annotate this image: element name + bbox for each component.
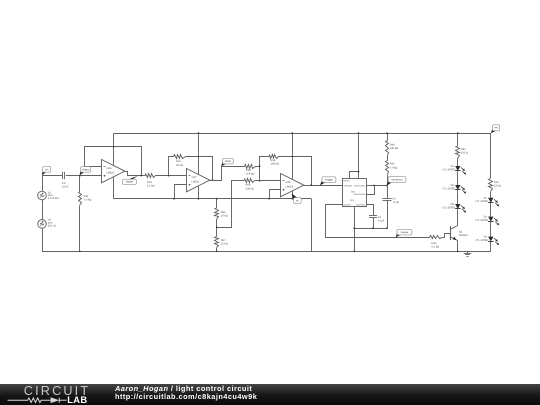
svg-text:R67: R67 xyxy=(221,239,226,242)
svg-text:10 kΩ: 10 kΩ xyxy=(221,243,228,246)
svg-text:LTL-307EE: LTL-307EE xyxy=(476,239,489,242)
svg-text:R42: R42 xyxy=(461,148,466,151)
svg-text:R12: R12 xyxy=(176,160,181,163)
svg-text:10 µF: 10 µF xyxy=(393,201,400,204)
svg-text:THRESHOLD: THRESHOLD xyxy=(354,193,366,196)
svg-text:150 Ω: 150 Ω xyxy=(494,185,501,188)
svg-text:10 kΩ: 10 kΩ xyxy=(176,164,183,167)
svg-text:0V: 0V xyxy=(296,199,299,202)
svg-text:OA8: OA8 xyxy=(286,181,292,184)
svg-text:LTL-307EE: LTL-307EE xyxy=(476,219,489,222)
svg-text:Vin: Vin xyxy=(45,168,49,171)
svg-text:150 Ω: 150 Ω xyxy=(461,152,468,155)
svg-text:LAB: LAB xyxy=(67,395,87,405)
svg-text:Vthreshold: Vthreshold xyxy=(392,178,404,181)
svg-text:DISCHARGE: DISCHARGE xyxy=(354,185,366,188)
svg-text:100 kΩ: 100 kΩ xyxy=(246,187,254,190)
svg-text:R68: R68 xyxy=(246,184,251,187)
svg-text:R40: R40 xyxy=(432,242,437,245)
svg-text:LTL-307EE: LTL-307EE xyxy=(443,206,456,209)
svg-text:2.673 kHz: 2.673 kHz xyxy=(48,197,60,200)
svg-text:10 nF: 10 nF xyxy=(62,185,69,188)
svg-text:281 Hz: 281 Hz xyxy=(48,224,57,227)
svg-text:5.6 kΩ: 5.6 kΩ xyxy=(84,199,92,202)
svg-text:1.1 kΩ: 1.1 kΩ xyxy=(147,185,155,188)
svg-text:2N3904: 2N3904 xyxy=(459,234,468,237)
svg-text:100 kΩ: 100 kΩ xyxy=(271,163,279,166)
svg-text:R38: R38 xyxy=(246,169,251,172)
svg-text:R13: R13 xyxy=(147,181,152,184)
svg-text:10 µF: 10 µF xyxy=(378,219,385,222)
svg-text:R58: R58 xyxy=(271,159,276,162)
svg-text:330 kΩ: 330 kΩ xyxy=(390,147,398,150)
svg-text:Vtrigger: Vtrigger xyxy=(325,179,333,182)
svg-text:VinBias: VinBias xyxy=(82,168,91,171)
svg-text:LM324: LM324 xyxy=(192,181,200,184)
svg-text:Vamp: Vamp xyxy=(225,160,232,163)
svg-text:R41: R41 xyxy=(494,181,499,184)
svg-text:LTL-307EE: LTL-307EE xyxy=(443,168,456,171)
svg-text:10 kΩ: 10 kΩ xyxy=(221,215,228,218)
svg-text:OA6: OA6 xyxy=(107,167,113,170)
svg-text:VBuffer: VBuffer xyxy=(126,181,134,184)
svg-text:LTL-307EE: LTL-307EE xyxy=(476,200,489,203)
svg-text:R45: R45 xyxy=(390,163,395,166)
svg-text:6.2 kΩ: 6.2 kΩ xyxy=(432,246,440,249)
svg-text:TRIGGER: TRIGGER xyxy=(343,184,352,187)
svg-text:+9V: +9V xyxy=(494,127,499,130)
svg-text:LTL-307EE: LTL-307EE xyxy=(443,187,456,190)
svg-text:Voutput: Voutput xyxy=(401,231,409,234)
svg-text:LM324: LM324 xyxy=(286,186,294,189)
svg-text:LM324: LM324 xyxy=(107,172,115,175)
svg-text:R44: R44 xyxy=(390,143,395,146)
svg-text:5.6 kΩ: 5.6 kΩ xyxy=(390,166,398,169)
svg-text:100 kΩ: 100 kΩ xyxy=(246,173,254,176)
svg-text:CONTROL: CONTROL xyxy=(356,204,365,207)
svg-text:OA7: OA7 xyxy=(192,176,198,179)
svg-text:R11: R11 xyxy=(84,195,89,198)
svg-text:OUTPUT: OUTPUT xyxy=(343,204,352,207)
svg-text:RESET: RESET xyxy=(343,179,350,182)
svg-text:R66: R66 xyxy=(221,211,226,214)
